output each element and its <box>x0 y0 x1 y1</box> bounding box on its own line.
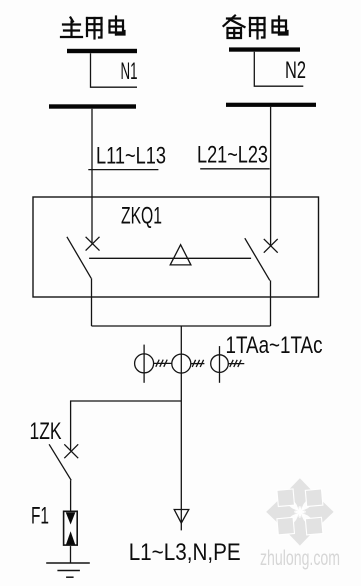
wire arrester to ground <box>70 546 72 563</box>
wire from backup busbar to switch <box>270 107 272 246</box>
busbar N1 top <box>67 49 137 53</box>
svg-text:L11~L13: L11~L13 <box>96 143 166 170</box>
underline L11~L13 <box>88 169 158 171</box>
wire right switch down <box>270 280 272 326</box>
arrester arrow up <box>66 531 75 544</box>
switch blade right <box>245 238 270 280</box>
wire + leader N1 <box>91 53 138 87</box>
wire + leader N2 <box>254 52 303 86</box>
drive linkage line <box>89 257 251 259</box>
svg-text:ZKQ1: ZKQ1 <box>121 203 162 230</box>
label 备用电 (backup supply) <box>224 16 288 39</box>
busbar N2 top <box>229 47 300 51</box>
switch blade 1ZK <box>49 444 71 480</box>
busbar main 2 <box>49 104 136 108</box>
label 主用电 (main supply) <box>61 17 125 39</box>
svg-text:zhulong.com: zhulong.com <box>260 547 340 570</box>
watermark logo <box>266 478 333 545</box>
svg-text:N1: N1 <box>121 58 138 85</box>
wire 1ZK down to arrester <box>70 480 72 511</box>
busbar backup 2 <box>226 103 316 107</box>
wire left switch down <box>91 278 93 326</box>
ground <box>46 563 90 577</box>
wire from main busbar to switch <box>91 109 93 244</box>
svg-text:1TAa~1TAc: 1TAa~1TAc <box>226 332 323 359</box>
underline L21~L23 <box>200 168 270 170</box>
output arrow <box>174 510 189 524</box>
switch contact X left <box>86 237 100 251</box>
switch blade left <box>67 237 91 278</box>
svg-text:L1~L3,N,PE: L1~L3,N,PE <box>129 539 241 566</box>
svg-text:N2: N2 <box>285 57 306 84</box>
switch contact X right <box>264 239 278 253</box>
collector wire <box>92 325 271 327</box>
svg-text:F1: F1 <box>31 503 49 530</box>
CT 1TAc <box>211 346 245 383</box>
CT 1TAb <box>172 354 205 373</box>
branch wire to 1ZK <box>71 401 182 451</box>
switch contact X 1ZK <box>64 444 78 458</box>
svg-text:1ZK: 1ZK <box>30 418 62 445</box>
main center wire down <box>180 326 182 530</box>
CT 1TAa <box>135 345 172 383</box>
arrester arrow down <box>66 512 76 524</box>
box ZKQ1 <box>33 197 319 297</box>
surge arrester F1 box <box>64 511 78 545</box>
svg-text:L21~L23: L21~L23 <box>197 142 268 169</box>
motor triangle <box>170 245 191 265</box>
